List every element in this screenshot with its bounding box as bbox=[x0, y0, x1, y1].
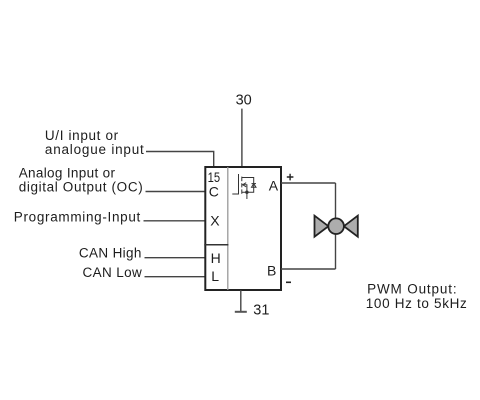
pin column divider bbox=[227, 167, 229, 290]
minus sign at pin B bbox=[286, 281, 291, 283]
channel segments bbox=[241, 177, 243, 182]
ECU box U1 bbox=[205, 167, 281, 290]
source lead bbox=[246, 192, 248, 199]
body stub with arrow bbox=[242, 185, 247, 192]
svg-text:31: 31 bbox=[253, 302, 269, 318]
source junction dot bbox=[245, 191, 248, 194]
svg-text:15: 15 bbox=[208, 169, 221, 185]
svg-text:C: C bbox=[209, 184, 219, 200]
svg-text:analogue input: analogue input bbox=[45, 142, 144, 157]
svg-text:B: B bbox=[267, 262, 276, 278]
wire pin-B to valve bbox=[281, 268, 336, 270]
svg-text:CAN High: CAN High bbox=[79, 245, 141, 260]
gate lead bbox=[232, 174, 238, 194]
svg-text:100 Hz to 5kHz: 100 Hz to 5kHz bbox=[366, 296, 467, 311]
svg-text:30: 30 bbox=[236, 92, 252, 108]
wire pin-C bbox=[146, 191, 206, 193]
wire pin-A to valve bbox=[281, 182, 336, 184]
svg-text:H: H bbox=[211, 250, 221, 266]
svg-text:Analog Input or: Analog Input or bbox=[19, 166, 116, 181]
svg-text:X: X bbox=[210, 212, 220, 228]
svg-text:L: L bbox=[211, 268, 219, 284]
wire pin-L bbox=[145, 276, 206, 278]
divider between X and H cells bbox=[204, 244, 228, 246]
wire terminal-30 to box top bbox=[241, 109, 243, 167]
svg-text:A: A bbox=[269, 178, 279, 194]
wire pin-15 from analogue input label bbox=[146, 152, 214, 168]
svg-text:PWM Output:: PWM Output: bbox=[367, 281, 457, 296]
valve left triangle bbox=[315, 216, 329, 237]
wire box bottom to ground bbox=[240, 290, 242, 312]
drain rail bbox=[242, 178, 254, 193]
wire pin-H bbox=[145, 257, 206, 259]
wire valve branch vertical bbox=[335, 183, 337, 269]
svg-text:U/I input or: U/I input or bbox=[45, 128, 119, 143]
transistor Q1 (MOSFET with body diode) bbox=[232, 174, 256, 199]
body diode D1 bbox=[252, 184, 257, 188]
valve body circle bbox=[328, 218, 344, 234]
wire pin-X bbox=[144, 220, 206, 222]
svg-text:CAN Low: CAN Low bbox=[83, 265, 142, 280]
plus sign at pin A bbox=[287, 174, 294, 181]
svg-text:Programming-Input: Programming-Input bbox=[14, 210, 141, 225]
valve Y1 (solenoid valve symbol) bbox=[315, 216, 358, 237]
ground (terminal 31 bar) bbox=[235, 311, 247, 313]
svg-text:digital Output (OC): digital Output (OC) bbox=[19, 180, 143, 195]
valve right triangle bbox=[344, 216, 358, 237]
